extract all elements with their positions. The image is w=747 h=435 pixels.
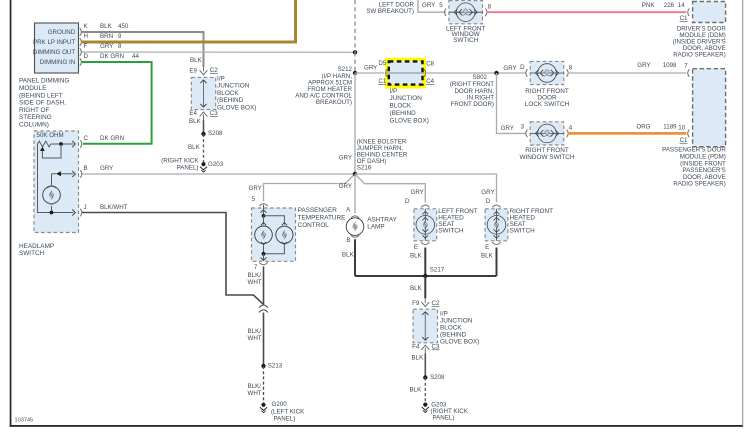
svg-text:F9: F9 — [412, 300, 420, 307]
svg-text:GLOVE BOX): GLOVE BOX) — [217, 104, 256, 111]
svg-text:C: C — [84, 135, 89, 142]
pin F — [80, 48, 82, 56]
wire GRY from S216 to left heated seat switch — [355, 174, 425, 202]
splice S213 — [261, 364, 265, 368]
svg-text:E: E — [414, 244, 418, 251]
svg-text:1098: 1098 — [663, 62, 677, 69]
ground G203 — [161, 157, 224, 172]
svg-text:RADIO SPEAKER): RADIO SPEAKER) — [673, 52, 726, 59]
svg-text:5: 5 — [439, 2, 443, 9]
svg-text:RADIO SPEAKER): RADIO SPEAKER) — [673, 181, 726, 188]
harness run (I/P harness, dashed) — [354, 0, 356, 52]
svg-text:GRY: GRY — [481, 189, 494, 196]
svg-text:B: B — [346, 237, 350, 244]
junction node on harness — [353, 50, 357, 54]
svg-text:3: 3 — [521, 123, 525, 130]
wiper arm of potentiometer — [40, 147, 45, 151]
svg-text:GRY: GRY — [100, 165, 113, 172]
dashed ground lead BLK — [203, 134, 205, 163]
left lamp of temperature control — [261, 223, 266, 226]
DDM label — [673, 25, 727, 58]
lamp: ASHTRAY LAMP — [346, 206, 364, 243]
lock switch label — [525, 88, 570, 108]
svg-text:50K OHM: 50K OHM — [37, 132, 64, 139]
headlamp switch pin J — [72, 210, 75, 216]
svg-text:RIGHT OF: RIGHT OF — [19, 107, 50, 114]
svg-text:BLK/WHT: BLK/WHT — [100, 204, 128, 211]
svg-text:226: 226 — [664, 2, 675, 9]
wire DK GRN 44 from pin D to headlamp switch pin C — [82, 62, 152, 144]
svg-text:ASHTRAY: ASHTRAY — [367, 216, 397, 223]
svg-text:I/P: I/P — [390, 88, 398, 95]
wire BLK from S217 to junction block — [424, 276, 426, 298]
svg-text:WHT: WHT — [248, 335, 262, 342]
DDM pin 14 connector C1 — [688, 8, 690, 16]
svg-text:S208: S208 — [208, 130, 223, 137]
svg-text:FRONT DOOR): FRONT DOOR) — [450, 101, 494, 108]
temperature control label — [298, 207, 346, 229]
svg-text:C1: C1 — [680, 15, 688, 22]
svg-text:D: D — [520, 64, 525, 71]
switch: LEFT FRONT HEATED SEAT SWITCH — [414, 205, 437, 244]
svg-text:PANEL): PANEL) — [177, 164, 199, 171]
internal wire left side of headlamp switch — [38, 144, 74, 213]
svg-text:S213: S213 — [268, 363, 283, 370]
svg-text:J: J — [84, 204, 87, 211]
svg-text:103745: 103745 — [15, 417, 34, 423]
wire GRY from S216 to right heated seat switch — [355, 174, 497, 202]
wire BLK from ashtray lamp pin B — [354, 239, 356, 276]
svg-text:GLOVE BOX): GLOVE BOX) — [440, 339, 479, 346]
pin D — [80, 58, 82, 66]
svg-text:C8: C8 — [426, 61, 434, 68]
svg-text:H: H — [84, 33, 88, 40]
svg-text:CONTROL: CONTROL — [298, 222, 330, 229]
svg-text:D: D — [405, 198, 410, 205]
page left border — [10, 0, 12, 427]
svg-text:F: F — [84, 43, 88, 50]
svg-text:GROUND: GROUND — [48, 29, 76, 36]
svg-text:GRY: GRY — [249, 185, 262, 192]
svg-text:COLUMN): COLUMN) — [19, 121, 49, 128]
LEFT DOOR SW BREAKOUT label — [366, 2, 414, 15]
svg-text:C2: C2 — [432, 300, 440, 307]
wire GRY pin B to S216 — [82, 173, 355, 175]
svg-text:8: 8 — [569, 65, 573, 72]
svg-text:S802: S802 — [473, 74, 488, 81]
svg-text:BLK/: BLK/ — [248, 328, 262, 335]
svg-text:GRY: GRY — [339, 183, 352, 190]
svg-text:PANEL DIMMING: PANEL DIMMING — [19, 78, 69, 85]
svg-text:SWTICH: SWTICH — [453, 37, 479, 44]
svg-text:GRY: GRY — [422, 2, 435, 9]
svg-text:14: 14 — [678, 2, 685, 9]
svg-text:7: 7 — [254, 264, 258, 271]
svg-text:JUNCTION: JUNCTION — [440, 318, 473, 325]
left heated seat switch label — [438, 208, 477, 235]
svg-text:SIDE OF DASH,: SIDE OF DASH, — [19, 100, 66, 107]
svg-text:GRY: GRY — [339, 154, 352, 161]
wire GRY from S212 to junction block pin D5 — [355, 72, 384, 74]
junction block label — [217, 75, 256, 111]
page right border — [742, 0, 743, 426]
svg-text:DK GRN: DK GRN — [100, 53, 124, 60]
page bottom border — [10, 425, 743, 427]
svg-text:JUNCTION: JUNCTION — [390, 95, 423, 102]
right heated seat switch label — [510, 208, 554, 235]
svg-text:GRY: GRY — [501, 125, 514, 132]
pin K — [80, 28, 82, 36]
svg-text:BREAKOUT): BREAKOUT) — [316, 99, 352, 106]
svg-text:BLK: BLK — [188, 144, 201, 151]
svg-text:HEADLAMP: HEADLAMP — [19, 243, 54, 250]
svg-text:DIMMING IN: DIMMING IN — [40, 59, 75, 66]
svg-text:D: D — [486, 198, 491, 205]
svg-text:GRY: GRY — [364, 64, 377, 71]
module: PASSENGER'S DOOR MODULE (PDM) — [693, 69, 726, 147]
splice S216 — [353, 172, 357, 176]
svg-text:4: 4 — [569, 125, 573, 132]
svg-text:PNK: PNK — [642, 2, 656, 9]
switch: RIGHT FRONT DOOR LOCK SWITCH — [526, 61, 568, 84]
svg-text:PANEL): PANEL) — [433, 414, 455, 421]
svg-text:I/P: I/P — [217, 75, 225, 82]
svg-text:G203: G203 — [208, 161, 224, 168]
splice S208 — [201, 132, 205, 136]
svg-text:(BEHIND: (BEHIND — [217, 97, 244, 104]
svg-text:(RIGHT KICK: (RIGHT KICK — [161, 157, 199, 164]
right lamp of temperature control — [282, 223, 287, 226]
splice S212 — [353, 71, 357, 75]
svg-text:S216: S216 — [357, 165, 372, 172]
svg-text:PANEL): PANEL) — [274, 416, 296, 423]
wire GRY 1098 to PDM pin 7 — [568, 72, 687, 74]
svg-text:C2: C2 — [210, 67, 218, 74]
svg-text:WHT: WHT — [248, 279, 262, 286]
wire GRY 5 from breakout to left front window switch — [418, 0, 446, 12]
wire BLK from right heated seat switch pin E — [496, 248, 498, 277]
control: PASSENGER TEMPERATURE CONTROL — [252, 204, 296, 265]
svg-text:MODULE: MODULE — [19, 85, 46, 92]
svg-text:DIMMING OUT: DIMMING OUT — [33, 49, 75, 56]
svg-text:BLK: BLK — [100, 23, 113, 30]
svg-text:PASSENGER: PASSENGER — [298, 207, 338, 214]
module: PANEL DIMMING MODULE — [33, 23, 79, 73]
svg-text:BLK: BLK — [410, 252, 423, 259]
ground G200 — [260, 401, 305, 423]
svg-text:STEERING: STEERING — [19, 114, 52, 121]
svg-text:TEMPERATURE: TEMPERATURE — [298, 214, 346, 221]
wire BLK bus to S217 — [355, 275, 497, 277]
svg-text:BLK: BLK — [410, 387, 423, 394]
wire GRY from S216 to passenger temperature control pin 5 — [264, 174, 356, 201]
wire ORG 1189 to PDM pin 10 — [568, 132, 687, 135]
junction block: I/P JUNCTION BLOCK (E9/C2) — [189, 66, 218, 120]
svg-text:450: 450 — [118, 23, 129, 30]
svg-text:7: 7 — [684, 62, 688, 69]
junction block label — [390, 88, 429, 125]
svg-text:C3: C3 — [432, 343, 440, 350]
wire GRY from S802 down to right front window switch — [497, 73, 527, 133]
S802 location label — [450, 74, 495, 108]
wire BLK/WHT to S213 — [263, 313, 265, 366]
svg-text:WHT: WHT — [248, 390, 262, 397]
dashed ground lead to G200 — [263, 366, 265, 403]
switch: LEFT FRONT WINDOW SWITCH — [445, 1, 487, 24]
svg-text:JUNCTION: JUNCTION — [217, 83, 250, 90]
svg-text:GRY: GRY — [637, 62, 650, 69]
switch: RIGHT FRONT HEATED SEAT SWITCH — [485, 205, 508, 244]
dimmer wiper arrow at pin B — [52, 171, 74, 185]
inline connector on BLK/WHT wire — [259, 305, 268, 312]
svg-text:BLK: BLK — [412, 355, 425, 362]
svg-text:(BEHIND: (BEHIND — [390, 110, 417, 117]
svg-text:GRY: GRY — [503, 65, 516, 72]
S212 location label — [295, 73, 352, 106]
svg-text:8: 8 — [488, 3, 492, 10]
svg-text:BRN: BRN — [100, 33, 113, 40]
svg-text:ORG: ORG — [636, 124, 650, 131]
switch: RIGHT FRONT WINDOW SWITCH — [526, 122, 568, 145]
wire BRN 9 from pin H (highlighted circuit) — [82, 0, 296, 42]
svg-text:F4: F4 — [412, 343, 420, 350]
svg-text:C1: C1 — [378, 78, 386, 85]
svg-text:E4: E4 — [189, 110, 197, 117]
svg-text:D: D — [84, 53, 89, 60]
svg-text:E9: E9 — [189, 68, 197, 75]
svg-text:BLK/: BLK/ — [248, 383, 262, 390]
splice S208 — [423, 375, 427, 379]
svg-text:LOCK SWITCH: LOCK SWITCH — [525, 101, 570, 108]
svg-text:GRY: GRY — [411, 189, 424, 196]
svg-text:BLOCK: BLOCK — [440, 325, 462, 332]
svg-text:S208: S208 — [430, 374, 445, 381]
wire GRY from S216 down to ashtray lamp — [354, 174, 356, 213]
svg-text:SWITCH: SWITCH — [19, 250, 45, 257]
wire BLK to S208 — [203, 120, 205, 134]
svg-text:B: B — [84, 165, 88, 172]
svg-text:1189: 1189 — [663, 124, 677, 131]
svg-text:BLOCK: BLOCK — [217, 90, 239, 97]
junction block: I/P JUNCTION BLOCK (D5/C8, highlighted) — [378, 60, 434, 86]
svg-text:8: 8 — [118, 43, 122, 50]
svg-text:5: 5 — [252, 196, 256, 203]
svg-text:BLK: BLK — [342, 251, 355, 258]
splice S217 — [423, 274, 427, 278]
junction block label — [440, 311, 479, 346]
svg-text:BLK: BLK — [190, 57, 203, 64]
svg-text:E: E — [485, 244, 489, 251]
resistor 50K OHM (potentiometer) — [38, 141, 74, 158]
svg-text:DK GRN: DK GRN — [100, 135, 124, 142]
svg-text:BLOCK: BLOCK — [390, 103, 412, 110]
wire BLK/WHT from pin J — [82, 213, 264, 305]
svg-text:44: 44 — [132, 53, 139, 60]
svg-text:(BEHIND: (BEHIND — [440, 332, 467, 339]
svg-text:BLK/: BLK/ — [248, 272, 262, 279]
svg-text:(LEFT KICK: (LEFT KICK — [271, 408, 305, 415]
right front window switch label — [519, 147, 574, 161]
svg-text:9: 9 — [118, 33, 122, 40]
svg-text:I/P: I/P — [440, 311, 448, 318]
svg-text:D5: D5 — [378, 60, 386, 67]
headlamp switch label — [19, 243, 54, 257]
svg-text:SW BREAKOUT): SW BREAKOUT) — [366, 8, 414, 15]
PDM label — [662, 147, 726, 188]
wire BLK from left heated seat switch pin E — [424, 248, 426, 277]
svg-text:SWITCH: SWITCH — [438, 228, 464, 235]
svg-text:WINDOW SWITCH: WINDOW SWITCH — [519, 154, 574, 161]
svg-text:BLK: BLK — [481, 252, 494, 259]
svg-text:C4: C4 — [426, 78, 434, 85]
ground G203 — [422, 401, 469, 421]
svg-text:C1: C1 — [680, 137, 688, 144]
wire BLK to S208 — [424, 353, 426, 377]
headlamp switch pin B — [72, 171, 75, 177]
left front window switch label — [446, 25, 485, 44]
wire PNK 226 to DDM — [487, 11, 687, 13]
svg-text:G200: G200 — [272, 401, 288, 408]
wire GRY from block C8 to S802 and lock switch — [427, 72, 526, 74]
svg-text:(BEHIND LEFT: (BEHIND LEFT — [19, 92, 63, 99]
S216 location label — [357, 138, 408, 171]
dashed ground lead BLK — [424, 378, 426, 403]
junction block: I/P JUNCTION BLOCK (F9/C2) — [412, 298, 440, 353]
svg-text:LAMP: LAMP — [367, 223, 384, 230]
pin H — [80, 38, 82, 46]
svg-text:GLOVE BOX): GLOVE BOX) — [390, 118, 429, 125]
svg-text:10: 10 — [678, 125, 685, 132]
svg-text:BLK: BLK — [189, 118, 202, 125]
headlamp switch pin C — [72, 141, 75, 147]
svg-text:PRK LP INPUT: PRK LP INPUT — [33, 39, 75, 46]
lamp inside headlamp switch — [43, 186, 61, 215]
wire GRY from S212 down to S216 — [354, 73, 356, 174]
module label text — [19, 78, 69, 129]
svg-text:GRY: GRY — [100, 43, 113, 50]
svg-text:S217: S217 — [430, 266, 445, 273]
wire GRY 8 from pin F to harness — [82, 51, 355, 53]
svg-text:SWITCH: SWITCH — [510, 228, 536, 235]
module: DRIVER'S DOOR MODULE (DDM) — [693, 2, 726, 23]
splice S802 — [494, 71, 498, 75]
switch: HEADLAMP SWITCH — [34, 131, 79, 233]
wire BLK 450 from pin K to I/P junction block — [82, 32, 204, 67]
svg-text:BLK: BLK — [410, 285, 423, 292]
